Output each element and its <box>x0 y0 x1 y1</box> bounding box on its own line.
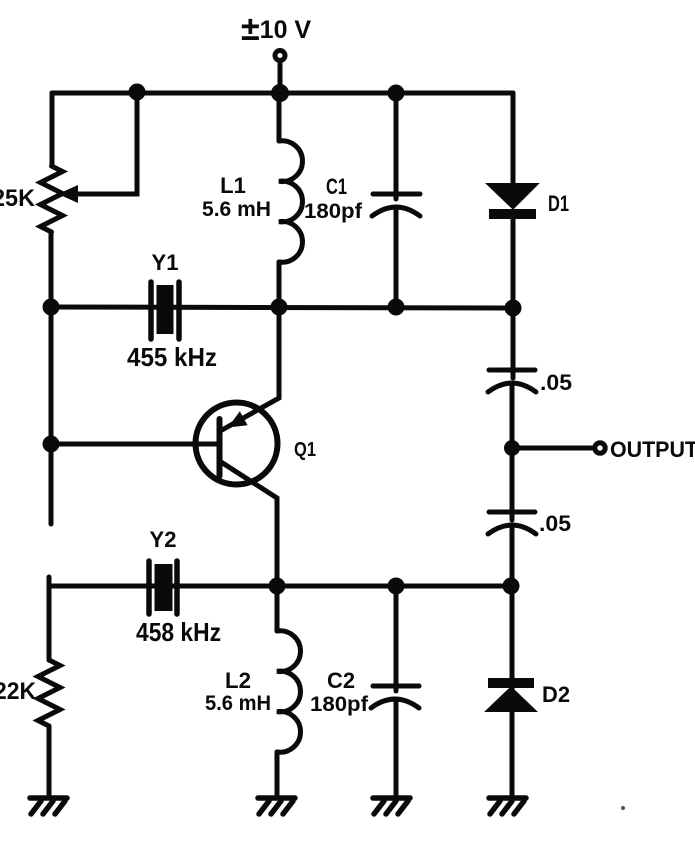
wire left rail mid (pot to break) <box>49 232 54 524</box>
inductor L1 bottom lead <box>277 262 282 307</box>
svg-text:455 kHz: 455 kHz <box>127 342 217 372</box>
capacitor C3 .05 bottom plate <box>488 383 536 392</box>
capacitor C2 bottom plate <box>371 699 419 708</box>
svg-text:L1: L1 <box>220 173 246 198</box>
node top rail / C1 <box>388 85 405 102</box>
svg-text:180pf: 180pf <box>310 693 369 716</box>
crystal Y2 right electrode <box>174 561 180 614</box>
svg-text:25K: 25K <box>0 185 36 212</box>
node Y1 row / C1 <box>388 299 405 316</box>
node top rail / wiper <box>129 84 146 101</box>
power terminal +/-10V <box>275 51 285 61</box>
inductor L2 coil <box>277 631 300 752</box>
crystal Y2 left electrode <box>146 561 152 614</box>
capacitor C2 top lead <box>394 586 399 691</box>
wire power terminal to top rail <box>278 62 283 93</box>
svg-text:458 kHz: 458 kHz <box>136 617 221 647</box>
svg-text:Y2: Y2 <box>150 527 177 552</box>
node Y2 row / C2 <box>388 578 405 595</box>
svg-text:D1: D1 <box>548 191 569 216</box>
crystal Y1 left electrode <box>148 282 154 339</box>
terminal OUTPUT <box>595 443 605 453</box>
wire right rail top <box>511 93 516 185</box>
crystal Y1 right electrode <box>176 282 182 339</box>
crystal Y1 body <box>157 285 174 334</box>
wire right rail to Y2 row <box>510 527 515 678</box>
capacitor C3 .05 top plate <box>489 368 535 373</box>
wire right rail D1 to Y1 row <box>511 219 516 378</box>
capacitor C4 .05 top plate <box>489 510 535 515</box>
svg-text:OUTPUT: OUTPUT <box>610 437 695 462</box>
capacitor C1 bottom lead <box>394 208 399 307</box>
wire 22K to ground <box>47 726 52 797</box>
diode D2 <box>488 678 534 688</box>
speck artifact <box>621 806 625 810</box>
svg-text:.05: .05 <box>540 370 572 395</box>
resistor 22K leads <box>47 586 52 660</box>
node Y1 row / L1 <box>271 299 288 316</box>
svg-text:Y1: Y1 <box>152 250 179 275</box>
ground C2 <box>373 798 410 814</box>
potentiometer wiper arrow <box>58 185 78 203</box>
potentiometer R1 25K body <box>41 166 63 232</box>
wire Y2 row <box>49 584 511 589</box>
svg-text:5.6 mH: 5.6 mH <box>205 692 271 715</box>
wire Y1 row <box>51 307 513 308</box>
svg-text:D2: D2 <box>542 682 570 707</box>
node left rail / Y1 row <box>43 299 60 316</box>
inductor L1 coil <box>279 141 302 262</box>
svg-text:±10 V: ±10 V <box>241 10 311 48</box>
svg-text:180pf: 180pf <box>304 200 363 223</box>
ground L2 <box>258 798 295 814</box>
resistor 22K body <box>38 660 60 726</box>
capacitor C1 bottom plate <box>372 207 420 216</box>
capacitor C1 top plate <box>373 192 420 197</box>
inductor L1 top lead <box>277 93 282 141</box>
wire base row <box>51 442 217 447</box>
svg-text:C1: C1 <box>326 174 347 199</box>
node Y2 row / right rail <box>503 578 520 595</box>
transistor Q1 emitter lead <box>222 307 279 430</box>
node top rail / supply <box>271 84 289 102</box>
node left rail / base row <box>43 436 60 453</box>
node OUTPUT junction <box>504 440 520 456</box>
svg-text:5.6 mH: 5.6 mH <box>202 198 271 221</box>
wire top rail <box>52 91 513 96</box>
capacitor C4 .05 bottom plate <box>488 525 536 534</box>
svg-text:22K: 22K <box>0 678 37 705</box>
svg-text:Q1: Q1 <box>294 439 316 461</box>
ground right rail <box>489 798 526 814</box>
transistor Q1 base bar <box>217 419 223 476</box>
svg-text:.05: .05 <box>539 511 571 536</box>
diode D1 <box>490 185 535 207</box>
wire output tap <box>512 446 593 451</box>
capacitor C2 bottom lead <box>394 700 399 797</box>
inductor L2 top lead <box>275 586 280 631</box>
capacitor C1 top lead <box>394 93 399 199</box>
wire right rail cap to output node <box>510 385 515 520</box>
svg-text:L2: L2 <box>225 668 251 693</box>
wire left stub above Y2 row <box>47 577 52 586</box>
wire wiper to top rail <box>76 92 137 194</box>
node Y2 row / L2 collector <box>269 578 286 595</box>
wire left rail upper <box>50 93 55 166</box>
wire right rail bottom <box>510 688 515 797</box>
capacitor C2 top plate <box>373 684 419 689</box>
svg-text:C2: C2 <box>327 668 355 693</box>
crystal Y2 body <box>155 564 173 611</box>
ground 22K <box>30 798 67 814</box>
node Y1 row / right rail <box>505 300 522 317</box>
inductor L2 bottom lead <box>275 752 280 797</box>
transistor Q1 emitter arrow <box>228 411 248 427</box>
transistor Q1 circle <box>196 403 278 485</box>
transistor Q1 collector lead <box>221 462 277 586</box>
